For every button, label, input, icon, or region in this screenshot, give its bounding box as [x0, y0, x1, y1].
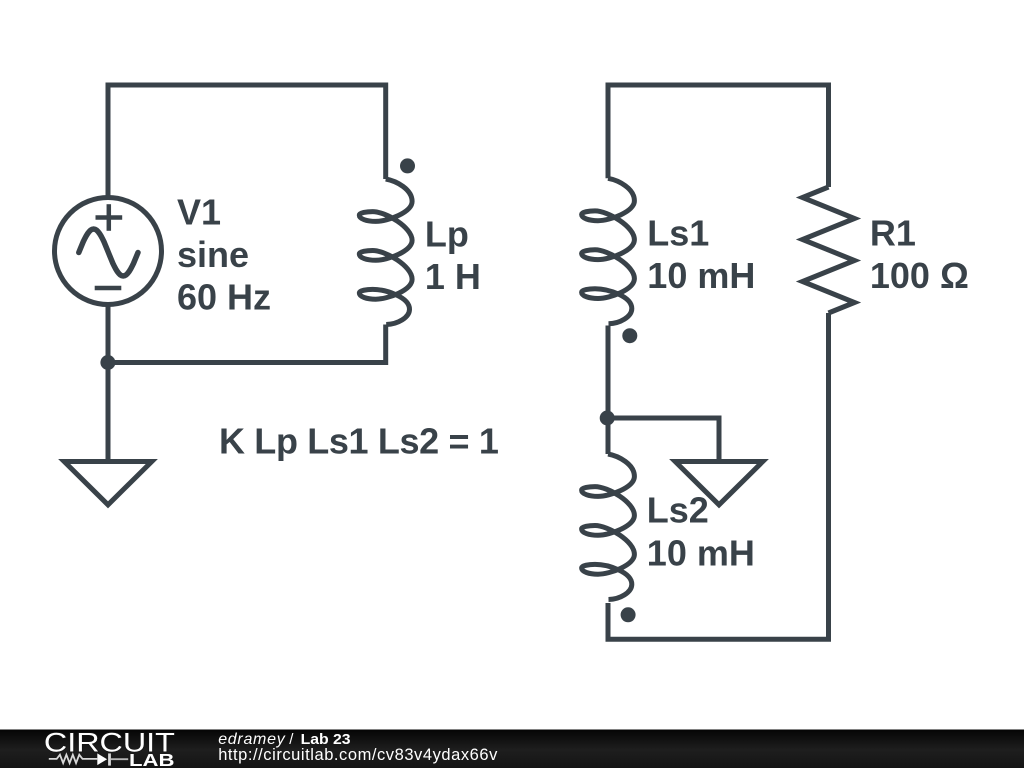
svg-text:http://circuitlab.com/cv83v4yd: http://circuitlab.com/cv83v4ydax66v: [218, 746, 498, 764]
svg-text:V1: V1: [177, 192, 221, 233]
svg-text:100 Ω: 100 Ω: [870, 255, 969, 296]
svg-text:Ls1: Ls1: [647, 213, 709, 254]
svg-text:Lp: Lp: [425, 214, 469, 255]
svg-text:K Lp Ls1 Ls2 = 1: K Lp Ls1 Ls2 = 1: [219, 421, 499, 462]
svg-text:Ls2: Ls2: [647, 490, 709, 531]
svg-text:10 mH: 10 mH: [647, 255, 755, 296]
svg-text:60 Hz: 60 Hz: [177, 276, 271, 317]
svg-text:10 mH: 10 mH: [647, 533, 755, 574]
svg-text:LAB: LAB: [129, 750, 175, 768]
svg-text:1 H: 1 H: [425, 256, 481, 297]
svg-text:sine: sine: [177, 234, 249, 275]
svg-text:R1: R1: [870, 213, 916, 254]
